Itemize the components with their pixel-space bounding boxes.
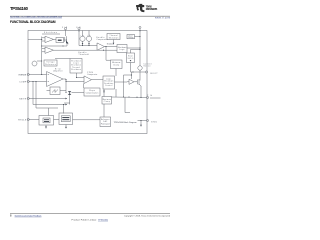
svg-text:Amplifier: Amplifier [54, 69, 63, 72]
svg-text:Copyright © 2008, Texas Instru: Copyright © 2008, Texas Instruments Inco… [124, 214, 170, 217]
svg-text:FUNCTIONAL BLOCK DIAGRAM: FUNCTIONAL BLOCK DIAGRAM [10, 20, 56, 24]
svg-text:VSENSE: VSENSE [18, 75, 27, 77]
svg-text:Shutdown: Shutdown [44, 31, 57, 34]
svg-text:Comparator: Comparator [97, 38, 108, 41]
svg-text:PH: PH [147, 95, 153, 97]
svg-text:Logic: Logic [73, 63, 79, 65]
svg-text:VIN: VIN [62, 27, 68, 29]
svg-text:Thermal: Thermal [110, 35, 119, 37]
svg-text:SS/TR: SS/TR [19, 99, 27, 101]
svg-text:COMP: COMP [19, 82, 27, 84]
svg-text:INSTRUMENTS: INSTRUMENTS [146, 9, 158, 11]
svg-text:RT/CLK: RT/CLK [18, 120, 27, 122]
svg-text:TPS54160: TPS54160 [10, 6, 29, 11]
svg-text:TPS54160 Block Diagram: TPS54160 Block Diagram [114, 122, 137, 124]
svg-text:Minimum: Minimum [112, 62, 121, 64]
svg-text:Logic: Logic [120, 49, 125, 51]
svg-text:Maximum: Maximum [103, 99, 112, 101]
svg-text:TEXAS: TEXAS [146, 4, 152, 8]
svg-text:UVLO: UVLO [128, 58, 134, 60]
svg-text:Clamp: Clamp [113, 65, 119, 67]
svg-text:www.ti.com: www.ti.com [155, 16, 170, 19]
svg-text:Product Folder Link(s):: Product Folder Link(s): [72, 219, 98, 222]
svg-text:GND: GND [151, 121, 158, 123]
svg-text:Slope: Slope [89, 90, 95, 92]
svg-text:Logic: Logic [106, 78, 111, 80]
svg-text:BOOT: BOOT [151, 73, 159, 75]
svg-text:Charge: Charge [128, 37, 134, 39]
svg-text:SLVS795B – OCTOBER 2008 – REVI: SLVS795B – OCTOBER 2008 – REVISED DECEMB… [10, 17, 63, 19]
svg-text:Threshold: Threshold [79, 53, 89, 56]
svg-text:Sense: Sense [144, 65, 151, 67]
svg-text:PWM: PWM [87, 72, 93, 74]
svg-text:Reference: Reference [45, 64, 56, 66]
svg-text:Clamp: Clamp [104, 101, 110, 103]
